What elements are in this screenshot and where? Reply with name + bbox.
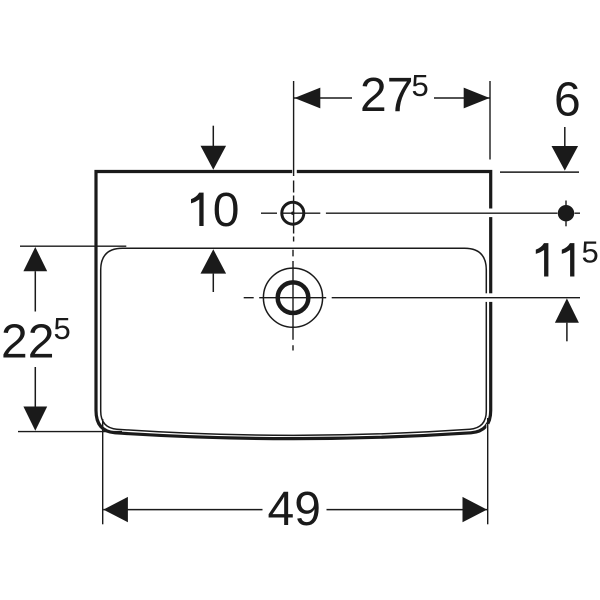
- knockout white sliver in bottom edge at right 49 extension crossing: [486, 424, 489, 438]
- outer rim of washbasin (thick outline): [96, 172, 491, 439]
- svg-text:49: 49: [268, 483, 321, 536]
- drain horizontal centerline out to right: [244, 297, 580, 299]
- drain vertical centerline: [292, 250, 294, 351]
- label 11(5): [536, 243, 549, 276]
- dim 6 : reference line at top edge level: [500, 171, 579, 173]
- dim 49 : right extension line: [487, 418, 489, 524]
- dim 27.5 : dimension line: [294, 97, 490, 99]
- dim 22.5 : top extension line: [20, 245, 126, 247]
- dim 49 : left arrowhead: [103, 497, 128, 522]
- drain inner ring: [278, 282, 309, 313]
- tap hole ring: [282, 202, 304, 224]
- svg-text:5: 5: [412, 68, 429, 103]
- svg-text:5: 5: [582, 235, 599, 270]
- knockout white gaps in right edges at drain line crossing: [485, 293, 488, 302]
- tap hole center dot: [291, 212, 294, 215]
- reference dot vertical centerline: [565, 201, 567, 227]
- tap hole horizontal centerline out to reference dot: [261, 212, 580, 214]
- svg-text:27: 27: [360, 69, 413, 122]
- dim 49 : dimension line segments: [103, 509, 487, 511]
- dim 6 : arrow stub and arrowhead pointing down to top edge: [564, 127, 566, 147]
- dim 49 : left extension line: [102, 419, 104, 524]
- svg-text:5: 5: [54, 311, 71, 346]
- label 10: [191, 193, 204, 226]
- dim 27.5 : left extension line (continues as tap-hole vertical centerline): [293, 81, 295, 176]
- dim 22.5 : dimension line segments: [34, 271, 36, 407]
- dim 49 : right arrowhead: [463, 497, 488, 522]
- dim 22.5 : up arrowhead: [23, 247, 47, 271]
- inner basin outline (thin): [101, 248, 487, 435]
- dim 11.5 : up arrowhead pointing to drain line, with stub: [555, 298, 579, 322]
- svg-text:6: 6: [554, 74, 581, 127]
- dim 27.5 : left arrowhead: [294, 88, 320, 109]
- drain outer circle: [263, 268, 322, 327]
- dim 22.5 : bottom extension line: [18, 431, 122, 433]
- reference dot: [558, 205, 574, 221]
- svg-text:0: 0: [213, 184, 240, 237]
- dim 27.5 : right arrowhead: [464, 88, 490, 109]
- knockout white gap in top edge at centerline crossing: [292, 169, 297, 175]
- dim 10 : down arrowhead to top edge with stub: [212, 126, 214, 146]
- dim 22.5 : down arrowhead: [23, 407, 47, 431]
- dim 10 : up arrowhead to basin top edge with stub: [201, 249, 227, 273]
- dim 27.5 : right extension line: [489, 81, 491, 160]
- knockout white gaps in right edges at tap-hole line crossing: [488, 209, 493, 218]
- svg-text:22: 22: [1, 316, 54, 369]
